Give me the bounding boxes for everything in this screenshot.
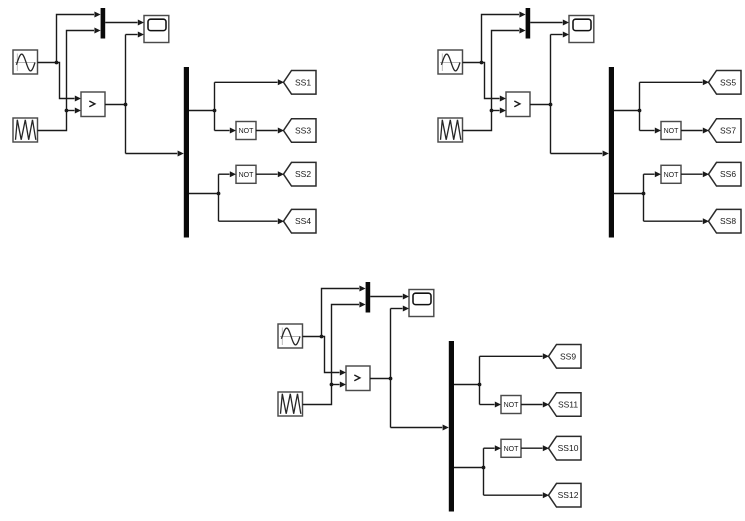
wire: branch to lower NOT input (circuit 3) bbox=[484, 445, 502, 451]
demux bar (circuit 1) bbox=[184, 67, 189, 238]
goto tag SS11 (circuit 3) bbox=[549, 393, 582, 417]
svg-text:SS7: SS7 bbox=[720, 126, 736, 136]
wire: branch to SS1 (circuit 1) bbox=[215, 79, 285, 85]
wire: triangle branch to relational operator input 2 (circuit 3) bbox=[332, 382, 347, 388]
logical operator NOT gate upper (circuit 3) bbox=[501, 396, 521, 414]
junction on sine output wire (circuit 2) bbox=[480, 61, 484, 65]
wire: comparator branch down to demux input (circuit 1) bbox=[126, 151, 184, 157]
svg-text:SS2: SS2 bbox=[295, 169, 311, 179]
goto tag SS10 (circuit 3) bbox=[549, 436, 582, 460]
junction on demux output 1 (circuit 3) bbox=[478, 383, 482, 387]
wire: sine output to relational operator input 1 (circuit 3) bbox=[303, 337, 347, 376]
relational operator &gt; block (circuit 1) bbox=[81, 92, 105, 117]
wire: demux output 2 trunk (circuit 3) bbox=[454, 448, 484, 495]
junction on demux output 2 (circuit 1) bbox=[217, 192, 221, 196]
wire: mux output to scope input 1 (circuit 1) bbox=[105, 20, 144, 26]
wire: relational operator output trunk (circuit 2) bbox=[530, 35, 551, 154]
svg-text:NOT: NOT bbox=[239, 128, 255, 135]
wire: upper NOT output to SS7 (circuit 2) bbox=[681, 128, 709, 134]
svg-text:SS3: SS3 bbox=[295, 126, 311, 136]
wire: demux output 2 trunk (circuit 1) bbox=[189, 174, 219, 221]
wire: comparator branch down to demux input (circuit 2) bbox=[551, 151, 609, 157]
wire: triangle output up to mux input 2 (circuit 1) bbox=[38, 28, 101, 131]
wire: relational operator output trunk (circuit 3) bbox=[370, 309, 391, 428]
logical operator NOT gate lower (circuit 2) bbox=[661, 165, 681, 183]
wire: branch to SS5 (circuit 2) bbox=[640, 79, 710, 85]
logical operator NOT gate upper (circuit 1) bbox=[236, 122, 256, 140]
wire: upper NOT output to SS11 (circuit 3) bbox=[521, 402, 549, 408]
svg-text:NOT: NOT bbox=[504, 402, 520, 409]
svg-text:SS12: SS12 bbox=[558, 490, 579, 500]
goto tag SS6 (circuit 2) bbox=[709, 162, 742, 186]
wire: branch to upper NOT input (circuit 2) bbox=[640, 128, 662, 134]
junction on sine output wire (circuit 3) bbox=[320, 335, 324, 339]
scope block (circuit 3) bbox=[409, 290, 434, 317]
wire: branch to lower NOT input (circuit 1) bbox=[219, 171, 237, 177]
wire: mux output to scope input 1 (circuit 2) bbox=[530, 20, 569, 26]
wire: lower NOT output to SS10 (circuit 3) bbox=[521, 445, 549, 451]
goto tag SS12 (circuit 3) bbox=[549, 483, 582, 507]
svg-text:SS11: SS11 bbox=[558, 400, 578, 410]
wire: triangle output up to mux input 2 (circuit 2) bbox=[463, 28, 526, 131]
junction on relational operator output (circuit 1) bbox=[124, 103, 128, 107]
wire: sine output to relational operator input 1 (circuit 1) bbox=[38, 63, 82, 102]
wire: demux output 1 trunk (circuit 1) bbox=[189, 82, 215, 130]
sine wave source block (circuit 2) bbox=[438, 50, 463, 74]
mux bar (circuit 1) bbox=[101, 8, 106, 39]
goto tag SS4 (circuit 1) bbox=[284, 209, 317, 233]
wire: comparator branch up to scope input 2 (circuit 1) bbox=[126, 32, 145, 38]
mux bar (circuit 2) bbox=[526, 8, 531, 39]
svg-text:SS8: SS8 bbox=[720, 216, 736, 226]
junction on demux output 2 (circuit 2) bbox=[642, 192, 646, 196]
wire: sine branch up to mux input 1 (circuit 3) bbox=[322, 286, 366, 337]
logical operator NOT gate lower (circuit 1) bbox=[236, 165, 256, 183]
scope block (circuit 1) bbox=[144, 16, 169, 43]
wire: sine branch up to mux input 1 (circuit 2) bbox=[482, 12, 526, 63]
wire: demux output 2 trunk (circuit 2) bbox=[614, 174, 644, 221]
wire: sine output to relational operator input 1 (circuit 2) bbox=[463, 63, 507, 102]
wire: comparator branch up to scope input 2 (circuit 2) bbox=[551, 32, 570, 38]
wire: mux output to scope input 1 (circuit 3) bbox=[370, 294, 409, 300]
wire: lower NOT output to SS6 (circuit 2) bbox=[681, 171, 709, 177]
wire: comparator branch up to scope input 2 (circuit 3) bbox=[391, 306, 410, 312]
svg-text:SS9: SS9 bbox=[560, 351, 576, 361]
demux bar (circuit 3) bbox=[449, 341, 454, 512]
junction on relational operator output (circuit 3) bbox=[389, 377, 393, 381]
junction on triangle wire (circuit 3) bbox=[330, 383, 334, 387]
svg-text:SS1: SS1 bbox=[295, 77, 311, 87]
sine wave source block (circuit 3) bbox=[278, 324, 303, 348]
svg-text:SS10: SS10 bbox=[558, 443, 579, 453]
wire: branch to SS9 (circuit 3) bbox=[480, 353, 550, 359]
wire: relational operator output trunk (circuit 1) bbox=[105, 35, 126, 154]
svg-text:NOT: NOT bbox=[664, 128, 680, 135]
repeating sequence triangle-wave source block (circuit 3) bbox=[278, 392, 303, 416]
svg-text:SS6: SS6 bbox=[720, 169, 736, 179]
goto tag SS1 (circuit 1) bbox=[284, 71, 317, 95]
mux bar (circuit 3) bbox=[366, 282, 371, 313]
goto tag SS5 (circuit 2) bbox=[709, 71, 742, 95]
goto tag SS8 (circuit 2) bbox=[709, 209, 742, 233]
scope block (circuit 2) bbox=[569, 16, 594, 43]
repeating sequence triangle-wave source block (circuit 2) bbox=[438, 118, 463, 142]
junction on demux output 1 (circuit 2) bbox=[638, 109, 642, 113]
junction on demux output 2 (circuit 3) bbox=[482, 466, 486, 470]
svg-text:SS5: SS5 bbox=[720, 77, 736, 87]
svg-text:NOT: NOT bbox=[664, 172, 680, 179]
junction on demux output 1 (circuit 1) bbox=[213, 109, 217, 113]
wire: comparator branch down to demux input (circuit 3) bbox=[391, 425, 449, 431]
wire: branch to SS4 (circuit 1) bbox=[219, 218, 285, 224]
wire: triangle output up to mux input 2 (circuit 3) bbox=[303, 302, 366, 405]
wire: sine branch up to mux input 1 (circuit 1) bbox=[57, 12, 101, 63]
goto tag SS9 (circuit 3) bbox=[549, 345, 582, 369]
sine wave source block (circuit 1) bbox=[13, 50, 38, 74]
wire: branch to upper NOT input (circuit 3) bbox=[480, 402, 502, 408]
relational operator &gt; block (circuit 2) bbox=[506, 92, 530, 117]
svg-text:SS4: SS4 bbox=[295, 216, 311, 226]
junction on triangle wire (circuit 1) bbox=[65, 109, 69, 113]
logical operator NOT gate upper (circuit 2) bbox=[661, 122, 681, 140]
svg-text:NOT: NOT bbox=[504, 446, 520, 453]
junction on sine output wire (circuit 1) bbox=[55, 61, 59, 65]
relational operator &gt; block (circuit 3) bbox=[346, 366, 370, 391]
junction on triangle wire (circuit 2) bbox=[490, 109, 494, 113]
wire: lower NOT output to SS2 (circuit 1) bbox=[256, 171, 284, 177]
goto tag SS2 (circuit 1) bbox=[284, 162, 317, 186]
logical operator NOT gate lower (circuit 3) bbox=[501, 439, 521, 457]
wire: branch to SS12 (circuit 3) bbox=[484, 492, 550, 498]
wire: triangle branch to relational operator input 2 (circuit 1) bbox=[67, 108, 82, 114]
wire: branch to upper NOT input (circuit 1) bbox=[215, 128, 237, 134]
wire: upper NOT output to SS3 (circuit 1) bbox=[256, 128, 284, 134]
goto tag SS7 (circuit 2) bbox=[709, 119, 742, 143]
goto tag SS3 (circuit 1) bbox=[284, 119, 317, 143]
demux bar (circuit 2) bbox=[609, 67, 614, 238]
svg-text:NOT: NOT bbox=[239, 172, 255, 179]
wire: demux output 1 trunk (circuit 2) bbox=[614, 82, 640, 130]
wire: branch to SS8 (circuit 2) bbox=[644, 218, 710, 224]
wire: branch to lower NOT input (circuit 2) bbox=[644, 171, 662, 177]
wire: demux output 1 trunk (circuit 3) bbox=[454, 356, 480, 404]
repeating sequence triangle-wave source block (circuit 1) bbox=[13, 118, 38, 142]
junction on relational operator output (circuit 2) bbox=[549, 103, 553, 107]
wire: triangle branch to relational operator input 2 (circuit 2) bbox=[492, 108, 507, 114]
